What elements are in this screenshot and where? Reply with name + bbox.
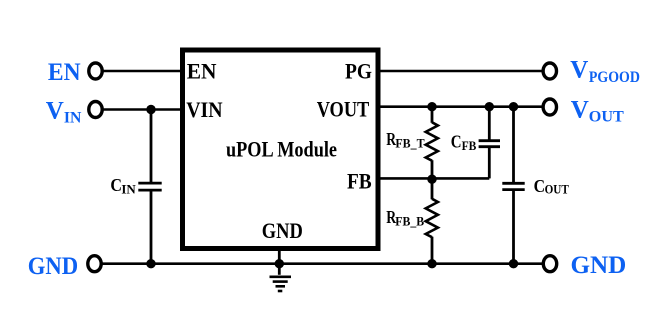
wire FB net xyxy=(380,177,490,180)
svg-text:VOUT: VOUT xyxy=(317,97,370,122)
terminal GND right xyxy=(543,256,556,272)
wire GND pin stub xyxy=(278,248,281,275)
svg-text:VIN: VIN xyxy=(186,97,222,122)
node GND junction COUT xyxy=(509,259,518,268)
capacitor COUT xyxy=(502,183,524,189)
wire RFBT top stub xyxy=(431,107,434,123)
terminal EN xyxy=(89,63,102,79)
node VOUT junction 1 xyxy=(427,102,436,111)
svg-text:GND: GND xyxy=(28,253,78,280)
terminal VIN xyxy=(89,102,102,118)
svg-text:PGOOD: PGOOD xyxy=(589,69,640,86)
svg-text:V: V xyxy=(570,56,588,83)
terminal VPGOOD xyxy=(543,63,556,79)
wire CIN top stub xyxy=(150,110,153,185)
node GND junction CIN xyxy=(146,259,155,268)
net label VPGOOD blue xyxy=(570,56,640,86)
wire CFB bottom stub xyxy=(488,146,491,178)
wire COUT bottom stub xyxy=(512,189,515,264)
wire RFBB top stub xyxy=(431,178,434,199)
wire EN net xyxy=(102,70,181,73)
svg-text:uPOL Module: uPOL Module xyxy=(226,137,337,162)
node GND junction RFBB xyxy=(427,259,436,268)
wire COUT top stub xyxy=(512,107,515,184)
label RFB_T xyxy=(386,129,425,151)
svg-text:GND: GND xyxy=(571,252,627,279)
svg-text:EN: EN xyxy=(48,59,81,86)
svg-text:OUT: OUT xyxy=(545,183,570,197)
capacitor CIN xyxy=(138,183,161,190)
capacitor CFB xyxy=(479,141,500,147)
node VIN junction xyxy=(146,105,155,114)
resistor RFB_B xyxy=(426,199,438,237)
wire CFB top stub xyxy=(488,107,491,142)
svg-text:FB_B: FB_B xyxy=(395,213,424,228)
svg-text:V: V xyxy=(571,97,589,124)
wire GND rail xyxy=(101,262,543,265)
terminal GND left xyxy=(88,256,101,272)
svg-text:FB: FB xyxy=(347,168,372,193)
wire VIN net xyxy=(102,108,181,111)
resistor RFB_T xyxy=(426,122,438,160)
svg-text:PG: PG xyxy=(345,59,372,84)
svg-text:OUT: OUT xyxy=(589,108,624,125)
wire PG net xyxy=(380,70,544,73)
ground symbol xyxy=(270,277,292,291)
terminal VOUT xyxy=(543,99,556,115)
net label VIN blue xyxy=(46,98,82,127)
wire RFBB bottom stub xyxy=(431,237,434,264)
wire CIN bottom stub xyxy=(150,190,153,264)
label COUT xyxy=(534,176,570,197)
svg-text:GND: GND xyxy=(262,218,303,243)
node FB junction xyxy=(427,175,436,184)
svg-text:IN: IN xyxy=(64,110,82,127)
uPOL Module box U1 xyxy=(183,50,379,249)
net label VOUT blue xyxy=(571,97,624,126)
node VOUT junction 2 xyxy=(485,102,494,111)
svg-text:C: C xyxy=(451,131,462,151)
label RFB_B xyxy=(386,207,424,228)
svg-text:V: V xyxy=(46,98,64,125)
svg-text:C: C xyxy=(534,176,545,196)
label CIN xyxy=(110,175,136,197)
label CFB xyxy=(451,131,477,153)
svg-text:FB: FB xyxy=(462,138,477,153)
node VOUT junction 3 xyxy=(509,102,518,111)
svg-text:EN: EN xyxy=(187,59,217,84)
svg-text:C: C xyxy=(110,175,122,195)
wire RFBT bottom stub xyxy=(431,160,434,178)
node GND junction module xyxy=(275,259,284,268)
svg-text:IN: IN xyxy=(121,182,136,197)
svg-text:FB_T: FB_T xyxy=(395,136,424,151)
wire VOUT net xyxy=(380,105,544,108)
